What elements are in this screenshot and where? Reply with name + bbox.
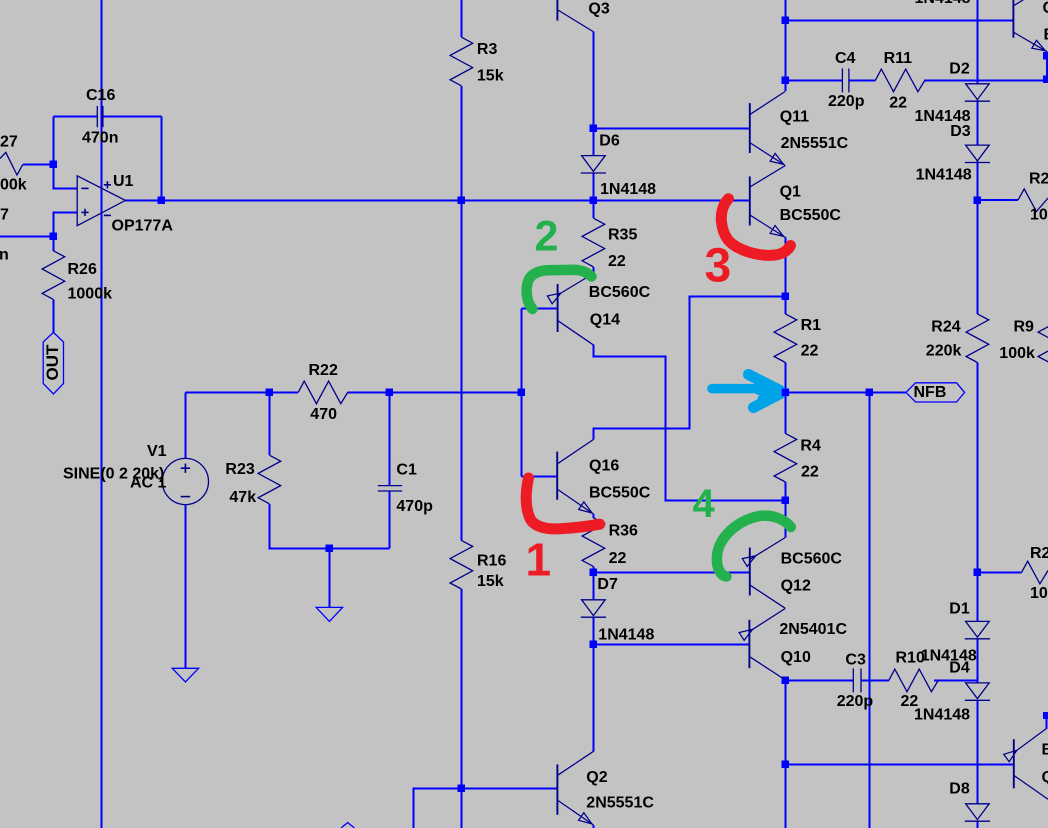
svg-text:BC550C: BC550C [780,207,842,224]
svg-text:C4: C4 [835,50,856,67]
svg-text:22: 22 [608,253,626,270]
svg-text:1N4148: 1N4148 [914,707,970,724]
svg-text:D3: D3 [950,123,971,140]
svg-text:2N5551C: 2N5551C [781,135,849,152]
svg-text:22: 22 [609,550,627,567]
svg-text:3: 3 [705,240,732,293]
svg-text:47k: 47k [229,489,256,506]
svg-text:Q: Q [1042,769,1048,786]
svg-text:R26: R26 [68,261,97,278]
svg-text:D7: D7 [597,576,618,593]
svg-text:1N4148: 1N4148 [916,167,972,184]
svg-text:7: 7 [0,207,9,224]
svg-text:Q2: Q2 [586,769,607,786]
svg-text:22: 22 [801,343,819,360]
svg-text:C16: C16 [86,87,115,104]
svg-text:R36: R36 [609,522,638,539]
svg-text:1N4148: 1N4148 [600,181,656,198]
svg-text:D6: D6 [599,133,620,150]
svg-text:R9: R9 [1014,319,1035,336]
svg-text:1000k: 1000k [68,286,113,303]
svg-text:R16: R16 [477,553,506,570]
svg-text:15k: 15k [477,68,504,85]
svg-text:R23: R23 [225,461,254,478]
svg-text:220p: 220p [828,93,865,110]
svg-text:22: 22 [889,95,907,112]
svg-text:10: 10 [1030,207,1048,224]
svg-text:R11: R11 [884,50,913,67]
svg-text:R4: R4 [800,438,821,455]
svg-text:Q3: Q3 [588,1,609,18]
svg-text:NFB: NFB [914,384,947,401]
svg-text:B: B [1042,742,1048,759]
svg-text:220p: 220p [837,693,874,710]
svg-text:1N4148: 1N4148 [915,0,971,7]
svg-text:10: 10 [1030,585,1048,602]
svg-text:Q10: Q10 [781,649,811,666]
svg-text:Q1: Q1 [780,184,801,201]
svg-text:Q: Q [1043,0,1048,17]
svg-text:AC 1: AC 1 [130,475,167,492]
svg-text:OUT: OUT [43,344,62,381]
svg-text:Q16: Q16 [589,458,619,475]
svg-text:2N5401C: 2N5401C [779,621,847,638]
svg-text:B: B [1044,27,1048,44]
svg-text:1N4148: 1N4148 [598,627,654,644]
svg-text:4: 4 [693,482,716,526]
svg-text:BC560C: BC560C [781,551,843,568]
svg-text:D4: D4 [949,660,970,677]
svg-text:Q12: Q12 [781,578,811,595]
svg-text:15k: 15k [477,573,504,590]
svg-text:00k: 00k [0,177,27,194]
svg-text:220k: 220k [926,343,962,360]
svg-text:22: 22 [801,464,819,481]
svg-text:OP177A: OP177A [112,218,174,235]
svg-text:V1: V1 [147,443,167,460]
svg-text:D8: D8 [949,781,970,798]
svg-text:C3: C3 [845,652,866,669]
svg-text:R1: R1 [801,317,822,334]
svg-text:100k: 100k [999,345,1035,362]
svg-text:R2: R2 [1030,545,1048,562]
svg-text:27: 27 [0,134,18,151]
svg-text:1: 1 [526,534,552,586]
svg-text:D2: D2 [949,61,970,78]
svg-text:470: 470 [310,406,337,423]
svg-text:2: 2 [535,213,559,261]
svg-text:R22: R22 [309,362,338,379]
svg-text:BC550C: BC550C [589,484,651,501]
svg-text:D1: D1 [949,601,970,618]
svg-text:R24: R24 [931,319,960,336]
svg-text:2N5551C: 2N5551C [586,795,654,812]
svg-text:R35: R35 [608,227,637,244]
svg-text:U1: U1 [113,173,134,190]
svg-text:470p: 470p [396,498,433,515]
svg-text:R3: R3 [477,41,498,58]
svg-text:Q14: Q14 [590,312,620,329]
svg-text:BC560C: BC560C [589,284,651,301]
svg-text:R2: R2 [1029,171,1048,188]
svg-text:n: n [0,247,9,264]
svg-text:C1: C1 [396,462,417,479]
svg-text:470n: 470n [82,130,118,147]
svg-text:Q11: Q11 [780,109,809,126]
